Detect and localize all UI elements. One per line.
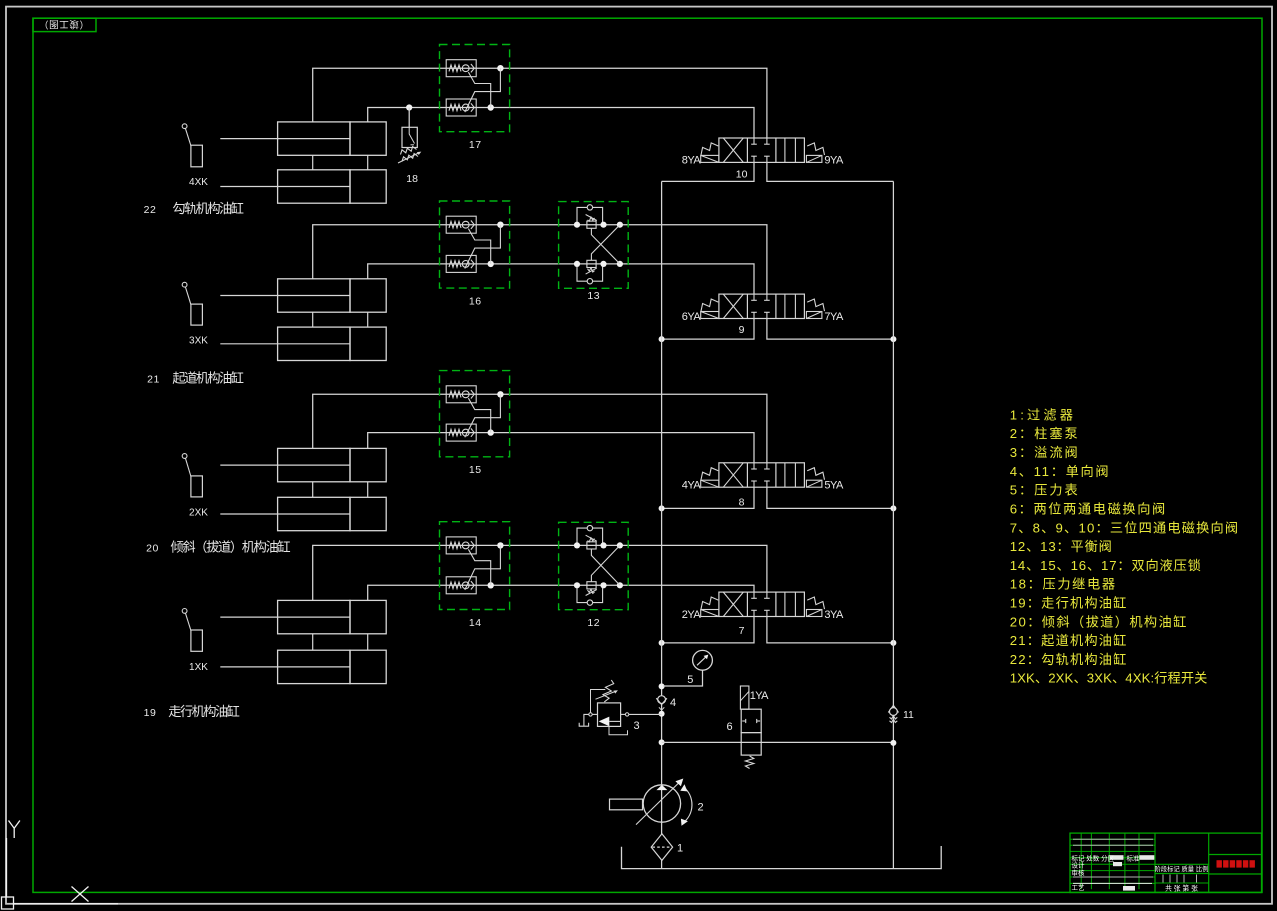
wire: valve 8 T port to tank trunk [767,487,894,508]
svg-text:2：柱塞泵: 2：柱塞泵 [1010,425,1078,441]
svg-text:4XK: 4XK [189,177,208,188]
wire: tank return trunk [892,181,894,868]
svg-text:19：走行机构油缸: 19：走行机构油缸 [1010,595,1127,611]
limit switch 2XK lever [185,458,191,476]
svg-text:1XK、2XK、3XK、4XK:行程开关: 1XK、2XK、3XK、4XK:行程开关 [1010,671,1208,686]
lock 15 output junction B [488,429,494,435]
balance 12 pilot cross line from upper [591,549,620,585]
svg-text:9: 9 [739,324,745,336]
svg-text:阶段标记 质量 比例: 阶段标记 质量 比例 [1155,864,1209,873]
valve 9 parallel-flow cell [784,294,786,318]
svg-text:6: 6 [726,721,732,733]
limit switch 3XK roller [182,282,187,287]
svg-text:6：两位两通电磁换向阀: 6：两位两通电磁换向阀 [1010,502,1165,517]
junction: valve 6 supply [659,739,665,745]
valve 7 closed centre port marks [753,592,755,598]
wire: supply to solenoid valve 6 and tank trunk [662,741,894,743]
hydraulic lock 15 dashed enclosure [440,371,510,457]
solenoid valve 6 coil 1YA [740,686,749,709]
balance 13 upper relief element [587,221,596,228]
limit switch 4XK body [191,145,203,167]
valve 8 right solenoid 5YA [806,480,822,487]
lock 14 upper pilot check valve [446,537,476,554]
cylinder 20B body [278,497,350,530]
lock 14 output junction B [488,582,494,588]
limit switch 2XK body [191,476,203,497]
svg-text:8YA: 8YA [682,155,702,167]
lock 16 lower pilot check valve [446,255,476,272]
valve 7 right solenoid 3YA [806,610,822,617]
cylinder 19A rod-end block [350,600,386,633]
svg-text:2: 2 [697,801,703,813]
lock 15 pilot line B to upper valve [468,398,490,432]
lock 17 pilot line B to upper valve [468,72,490,107]
svg-text:走行机构油缸: 走行机构油缸 [168,703,240,719]
pressure relay 18 body [402,127,417,147]
balance 13 upper bypass check loop [577,207,603,224]
wire: line A (cyl 21 port A to valve 9) [313,225,767,294]
wire: valve 10 T port to tank trunk [767,162,894,181]
cylinder 22A rod-end block [350,122,386,155]
cylinder 20A piston rod line [220,464,350,466]
relief valve 3 pilot line [591,690,606,713]
junction: relief valve branch [659,711,665,717]
wire: parallel stubs between cylinders 19A and 19B [312,634,314,650]
balance 12 upper bypass check loop [577,528,603,545]
junction: tank trunk row 19 [890,640,896,646]
svg-text:7、8、9、10：三位四通电磁换向阀: 7、8、9、10：三位四通电磁换向阀 [1010,520,1238,535]
valve 7 right return spring [807,597,824,609]
svg-text:11: 11 [903,709,914,721]
lock 16 output junction B [488,261,494,267]
limit switch 1XK lever [185,613,191,630]
wire: valve 7 T port to tank trunk [767,617,894,643]
balance valve 12 dashed enclosure [559,522,629,609]
directional valve 8 body [719,463,805,487]
svg-text:3: 3 [633,720,639,732]
balance 13 lower relief element [587,260,596,267]
svg-text:9YA: 9YA [824,155,844,167]
valve 9 right return spring [807,299,824,311]
pressure gauge 5 [663,670,703,686]
svg-text:3XK: 3XK [189,335,208,346]
junction: pressure trunk row 20 [659,505,665,511]
lock 16 upper pilot check valve [446,216,476,233]
limit switch 4XK roller [182,124,187,129]
UCS icon origin box [2,897,14,909]
svg-text:5: 5 [687,674,693,686]
wire: line A (cyl 22 port A to valve 10) [313,68,767,138]
cylinder 22A piston rod line [220,138,350,140]
svg-text:7YA: 7YA [824,311,844,323]
lock 16 output junction A [497,222,503,228]
svg-text:审核: 审核 [1072,868,1086,877]
svg-text:2XK: 2XK [189,508,208,519]
balance 12 lower relief element [587,582,596,589]
svg-text:12: 12 [587,617,600,629]
svg-text:21：起道机构油缸: 21：起道机构油缸 [1010,632,1127,648]
svg-text:3YA: 3YA [824,609,844,621]
svg-text:4YA: 4YA [682,480,702,492]
suction filter 1 [651,834,672,861]
cylinder 20A rod-end block [350,448,386,481]
junction: gauge branch [659,683,665,689]
balance 12 upper junction dots [574,542,580,548]
balance 13 upper junction dots [574,222,580,228]
limit switch 3XK lever [185,287,191,305]
relief valve 3 spring [603,680,614,702]
junction: tank trunk / valve 6 line [890,740,896,746]
svg-text:16: 16 [469,295,482,307]
directional valve 10 body [719,138,805,162]
limit switch 2XK roller [182,454,187,459]
wire: branch to pressure relay 18 [406,104,412,110]
svg-text:20: 20 [146,542,159,554]
svg-text:倾斜（拔道）机构油缸: 倾斜（拔道）机构油缸 [171,538,291,554]
limit switch 4XK lever [185,128,191,145]
cylinder 22B body [278,170,350,203]
pressure relay 18 spring [401,147,417,155]
valve 8 crossed-flow cell [723,463,743,487]
valve 9 left return spring [701,299,718,311]
lock 14 pilot line A to lower valve [465,545,501,590]
lock 17 pilot line A to lower valve [465,68,501,112]
svg-text:18：压力继电器: 18：压力继电器 [1010,577,1115,592]
variable displacement pump 2 [643,785,680,822]
wire: pressure trunk (pump riser) [661,181,663,868]
valve 8 right return spring [807,468,824,480]
svg-text:1YA: 1YA [750,690,769,702]
balance 12 lower bypass check loop [577,585,603,602]
title tab box top-left [33,18,96,31]
solenoid valve 6 spring [745,756,753,769]
valve 9 crossed-flow cell [723,294,743,318]
drawing title red text blocks [1217,860,1222,867]
relief valve 3 tank port [592,713,597,715]
wire: parallel stubs between cylinders 22A and 22B [312,155,314,170]
wire: valve 9 T port to tank trunk [767,319,894,340]
svg-text:1XK: 1XK [189,662,208,673]
svg-text:共 张 第 张: 共 张 第 张 [1165,884,1198,893]
wire: line B (cyl 19 port B to valve 7) [368,585,754,600]
svg-text:18: 18 [406,173,418,185]
svg-text:3：溢流阀: 3：溢流阀 [1010,445,1078,460]
wire: valve 10 P port to pressure trunk [662,162,754,181]
wire: line B (cyl 20 port B to valve 8) [368,433,754,463]
lock 16 pilot line A to lower valve [465,225,501,269]
cylinder 19B rod-end block [350,650,386,683]
svg-text:标准: 标准 [1127,853,1141,862]
UCS icon Y axis [9,821,15,839]
cylinder 19B piston rod line [220,666,350,668]
limit switch 3XK body [191,304,203,325]
cylinder 19A body [278,600,350,633]
cylinder 21B rod-end block [350,327,386,360]
cylinder 22A body [278,122,350,155]
balance 13 pilot cross line from upper [591,228,620,264]
wire: parallel stubs between cylinders 20A and 20B [312,482,314,498]
limit switch 1XK roller [182,609,187,614]
svg-text:14: 14 [469,617,482,629]
wire: line B (cyl 21 port B to valve 9) [368,264,754,294]
valve 10 right return spring [807,143,824,155]
lock 17 lower pilot check valve [446,99,476,116]
wire: valve 8 P port to pressure trunk [662,487,754,508]
svg-text:1: 1 [677,843,683,855]
wire: line B (cyl 22 port B to valve 10) [368,108,754,139]
svg-text:10: 10 [736,169,748,181]
cylinder 19B body [278,650,350,683]
valve 10 right solenoid 9YA [806,155,822,162]
relief valve 3 outlet to trunk [621,713,626,715]
balance 12 upper relief element [587,542,596,549]
valve 10 parallel-flow cell [784,138,786,162]
svg-text:20：倾斜（拔道）机构油缸: 20：倾斜（拔道）机构油缸 [1010,613,1187,629]
junction: tank trunk row 20 [890,505,896,511]
cylinder 20A body [278,448,350,481]
check valve 11 [888,705,898,712]
relief valve 3 body [598,703,621,727]
valve 9 closed centre port marks [753,294,755,300]
balance 13 pilot cross line from lower [591,225,620,261]
valve 7 left solenoid 2YA [701,610,719,617]
lock 17 output junction A [497,65,503,71]
cylinder 21A body [278,279,350,312]
limit switch 1XK body [191,630,203,651]
svg-text:21: 21 [147,373,160,385]
svg-text:2YA: 2YA [682,609,702,621]
lock 15 upper pilot check valve [446,386,476,403]
junction: pressure trunk row 19 [659,640,665,646]
cylinder 21B piston rod line [220,343,350,345]
hydraulic lock 17 dashed enclosure [440,45,510,132]
cylinder 22B piston rod line [220,186,350,188]
lock 15 output junction A [497,391,503,397]
svg-text:5：压力表: 5：压力表 [1010,483,1078,498]
svg-text:起道机构油缸: 起道机构油缸 [172,369,244,385]
cylinder 21A rod-end block [350,279,386,312]
svg-text:22: 22 [144,204,157,216]
junction: tank trunk row 21 [890,336,896,342]
valve 7 left return spring [701,597,718,609]
cylinder 21B body [278,327,350,360]
hydraulic lock 16 dashed enclosure [440,201,510,288]
lock 14 lower pilot check valve [446,577,476,594]
solenoid valve 6 body [741,709,761,732]
cylinder 21A piston rod line [220,295,350,297]
valve 8 left return spring [701,468,718,480]
svg-text:8: 8 [739,497,745,509]
lock 17 output junction B [488,104,494,110]
svg-text:14、15、16、17：双向液压锁: 14、15、16、17：双向液压锁 [1010,558,1201,573]
balance 12 pilot cross line from lower [591,545,620,581]
wire: parallel stubs between cylinders 21A and 21B [312,312,314,327]
valve 8 left solenoid 4YA [701,480,719,487]
lock 16 pilot line B to upper valve [468,229,490,264]
pump 2 drive shaft [610,799,643,810]
balance 13 lower junction dots [574,261,580,267]
svg-text:19: 19 [144,707,157,719]
svg-text:6YA: 6YA [682,311,702,323]
lock 14 pilot line B to upper valve [468,549,490,585]
svg-text:（竣工图）: （竣工图） [39,18,89,30]
valve 10 crossed-flow cell [723,138,743,162]
svg-text:17: 17 [469,139,482,151]
hydraulic lock 14 dashed enclosure [440,522,510,610]
valve 9 right solenoid 7YA [806,312,822,319]
title block [1070,833,1262,892]
svg-text:15: 15 [469,464,482,476]
lock 17 upper pilot check valve [446,60,476,77]
wire: line A (cyl 20 port A to valve 8) [313,394,767,463]
svg-text:5YA: 5YA [824,480,844,492]
valve 7 parallel-flow cell [784,592,786,616]
wire: line A (cyl 19 port A to valve 7) [313,545,767,600]
directional valve 7 body [719,592,805,616]
cylinder 20B rod-end block [350,497,386,530]
wire: valve 9 P port to pressure trunk [662,319,754,340]
check valve 4 [658,696,666,704]
directional valve 9 body [719,294,805,318]
lock 15 pilot line A to lower valve [465,394,501,437]
svg-text:勾轨机构油缸: 勾轨机构油缸 [172,200,244,216]
valve 10 left return spring [701,143,718,155]
UCS icon X axis [14,903,119,905]
svg-text:22：勾轨机构油缸: 22：勾轨机构油缸 [1010,651,1127,667]
balance 12 lower junction dots [574,582,580,588]
valve 8 closed centre port marks [753,463,755,469]
lock 15 lower pilot check valve [446,424,476,441]
balance valve 13 dashed enclosure [559,202,629,289]
svg-text:设计: 设计 [1072,861,1086,870]
cylinder 19A piston rod line [220,616,350,618]
svg-text:工艺: 工艺 [1072,883,1086,891]
svg-text:13: 13 [587,290,600,302]
valve 7 crossed-flow cell [723,592,743,616]
valve 10 left solenoid 8YA [701,155,719,162]
valve 8 parallel-flow cell [784,463,786,487]
lock 14 output junction A [497,542,503,548]
oil tank [622,846,942,869]
valve 9 left solenoid 6YA [701,312,719,319]
cylinder 20B piston rod line [220,513,350,515]
junction: pressure trunk row 21 [659,336,665,342]
cylinder 22B rod-end block [350,170,386,203]
valve 10 closed centre port marks [753,138,755,144]
svg-text:标记 处数 分区: 标记 处数 分区 [1072,853,1115,862]
relief valve 3 drain [609,726,628,734]
svg-text:4: 4 [670,697,676,709]
svg-text:12、13：平衡阀: 12、13：平衡阀 [1010,539,1112,554]
svg-text:7: 7 [739,625,745,637]
balance 13 lower bypass check loop [577,264,603,281]
wire: valve 7 P port to pressure trunk [662,617,754,643]
